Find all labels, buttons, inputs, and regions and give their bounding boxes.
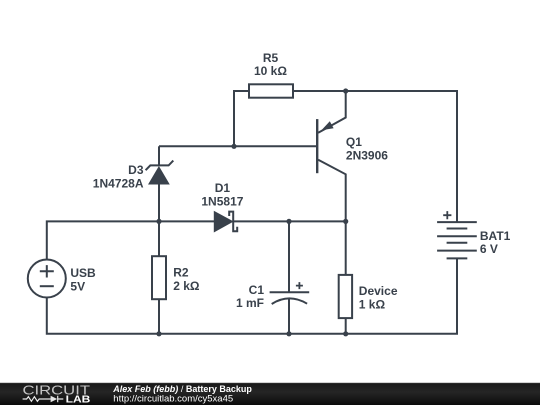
wire: Device bottom lead (345, 318, 347, 334)
C1 curved bottom plate (272, 298, 307, 304)
svg-text:BAT1: BAT1 (480, 229, 511, 243)
svg-text:5V: 5V (70, 279, 85, 293)
wire: R2 top lead (158, 221, 160, 256)
D1 triangle (anode, pointing right) (214, 212, 232, 232)
svg-text:D3: D3 (128, 163, 144, 177)
voltage source USB 5V (28, 260, 66, 298)
node: junction top bus / Q1 emitter (343, 88, 348, 93)
BAT1 plate long 3 (437, 250, 477, 252)
C1 top plate (270, 291, 310, 293)
BAT1 plate short 1 (447, 228, 468, 230)
node: junction bottom bus / R2 bottom (156, 331, 161, 336)
node: junction bottom bus / C1 bottom (286, 331, 291, 336)
svg-text:Q1: Q1 (346, 135, 362, 149)
wire: Q1 emitter vertical from top bus (318, 91, 346, 133)
D3 triangle (anode, pointing up) (149, 167, 169, 184)
svg-text:D1: D1 (215, 181, 231, 195)
wire: C1 top lead (288, 221, 290, 292)
wire: R5 left lead to corner down to base-wire junction (234, 91, 249, 146)
wire: Device top lead (345, 221, 347, 275)
resistor R5 10k box (249, 84, 293, 97)
D1 schottky cathode bar with hooks (229, 212, 237, 232)
wire: USB bottom lead, bottom bus, up to battery bottom (47, 258, 457, 333)
svg-text:USB: USB (70, 266, 96, 280)
USB minus sign (40, 285, 54, 287)
node: junction mid bus / D3 bottom (156, 219, 161, 224)
wire: Q1 collector vertical down to mid bus (318, 160, 346, 222)
Q1 base bar (316, 119, 318, 173)
zener diode D3 1N4728A (146, 161, 174, 184)
wire: R2 bottom lead (158, 299, 160, 334)
wire: base wire from D3 column to Q1 base (159, 145, 317, 147)
C1 plus sign (296, 282, 303, 289)
svg-text:2 kΩ: 2 kΩ (173, 279, 200, 293)
svg-text:2N3906: 2N3906 (346, 149, 388, 163)
BAT1 plate short 3 (447, 257, 468, 259)
schottky diode D1 1N5817 (214, 212, 237, 232)
CircuitLab logo: resistor zigzag + diode glyph (23, 396, 64, 402)
capacitor C1 polarized (270, 282, 310, 304)
svg-text:1 mF: 1 mF (236, 296, 264, 310)
svg-text:10 kΩ: 10 kΩ (254, 64, 287, 78)
svg-text:Device: Device (359, 284, 398, 298)
node: junction mid bus / Device top (343, 219, 348, 224)
BAT1 plus sign (443, 211, 451, 219)
node: junction base wire / R5 left (231, 144, 236, 149)
wire: D3 top lead up to base wire corner (158, 146, 160, 165)
BAT1 plate long 1 (437, 221, 477, 223)
svg-text:1N4728A: 1N4728A (93, 176, 144, 190)
wire: C1 bottom lead (288, 298, 290, 334)
svg-text:1N5817: 1N5817 (201, 195, 243, 209)
resistor R2 2k box (152, 256, 166, 299)
node: junction bottom bus / Device bottom (343, 331, 348, 336)
svg-text:1 kΩ: 1 kΩ (359, 298, 386, 312)
svg-text:LAB: LAB (66, 394, 91, 405)
wire: mid bus from D1 cathode to Device column (233, 220, 346, 222)
BAT1 plate long 2 (437, 235, 477, 237)
D3 zener cathode bar with bent ends (146, 161, 174, 171)
svg-text:http://circuitlab.com/cy5xa45: http://circuitlab.com/cy5xa45 (113, 394, 233, 405)
wire: R5 right lead to top-right corner down to battery top (293, 91, 457, 222)
Q1 emitter arrowhead (PNP, points to base) (321, 121, 333, 130)
svg-text:R2: R2 (173, 266, 189, 280)
USB plus sign (40, 265, 54, 277)
node: junction mid bus / C1 top (286, 219, 291, 224)
USB circle (28, 260, 66, 298)
battery BAT1 6V (437, 211, 477, 258)
wire: D3 bottom lead down to mid bus (158, 184, 160, 221)
svg-text:C1: C1 (249, 283, 265, 297)
BAT1 plate short 2 (447, 242, 468, 244)
transistor Q1 PNP 2N3906 (316, 119, 318, 173)
wire: USB top lead and mid bus left segment to D1 anode (47, 221, 215, 259)
footer black bar (0, 383, 540, 405)
resistor Device 1k box (339, 275, 352, 318)
svg-text:R5: R5 (263, 51, 279, 65)
svg-text:6 V: 6 V (480, 242, 498, 256)
